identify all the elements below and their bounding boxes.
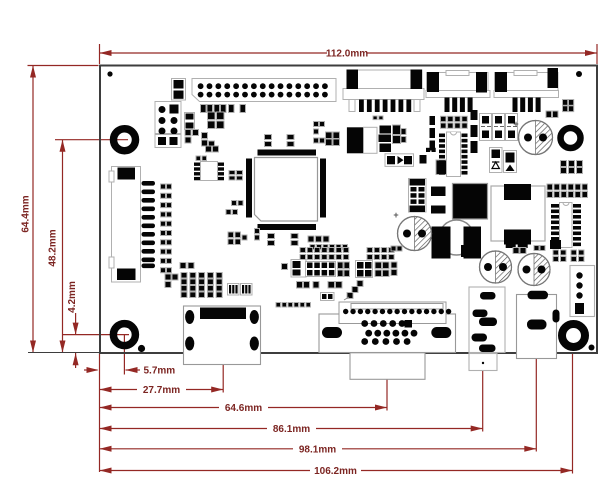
svg-text:64.4mm: 64.4mm xyxy=(21,195,32,232)
pads P4 xyxy=(229,171,243,181)
components R3 R4 R5 xyxy=(185,130,219,153)
pads row P20 xyxy=(276,303,311,308)
capacitor C6 xyxy=(291,234,298,246)
mounting hole top-left xyxy=(114,129,136,151)
pads P22 xyxy=(165,263,194,288)
HDMI connector J8 xyxy=(184,306,261,365)
dimension 4.2mm xyxy=(67,281,79,368)
pads P11 xyxy=(561,161,583,174)
svg-text:48.2mm: 48.2mm xyxy=(48,229,59,266)
pads P2 xyxy=(196,156,207,161)
svg-text:+: + xyxy=(513,119,518,129)
via dot near bottom-right hole xyxy=(589,345,595,351)
pads P7 xyxy=(228,232,247,245)
pads cluster P18 xyxy=(356,261,398,278)
pads column P3 xyxy=(161,184,172,273)
components R9-R11 xyxy=(471,110,478,153)
diode D3 xyxy=(504,151,517,173)
dimension 106.2mm (to 4-pin connector center) xyxy=(100,352,573,477)
pads P14 xyxy=(553,250,584,262)
capacitor C10 (electrolytic) xyxy=(393,210,431,251)
FFC connector J7 xyxy=(109,167,141,283)
capacitor C3 xyxy=(265,135,272,147)
resistors R1 R2 xyxy=(201,105,246,113)
components C1 C2 xyxy=(185,112,225,130)
capacitor C14 (electrolytic) xyxy=(480,251,512,283)
capacitor C7 (tantalum) xyxy=(347,127,377,153)
pads P15 xyxy=(513,246,545,254)
PCB board outline xyxy=(100,66,597,354)
dimension 64.6mm (to VGA center) xyxy=(100,316,388,414)
dimension 5.7mm xyxy=(84,335,175,377)
component U7 xyxy=(282,260,307,278)
pads P16 xyxy=(391,246,402,251)
capacitors C8 C9 xyxy=(431,187,446,214)
svg-text:64.6mm: 64.6mm xyxy=(225,403,262,414)
component R15 xyxy=(321,293,335,301)
svg-text:5.7mm: 5.7mm xyxy=(144,366,176,377)
extension line at bottom hole center xyxy=(63,334,129,336)
IC U6 (SOIC-16) xyxy=(551,203,581,248)
component T1 xyxy=(409,179,427,213)
components Q1 R6 xyxy=(373,116,406,152)
IC U1 (QFP main controller) xyxy=(246,150,326,231)
inductor L1 (shielded) xyxy=(453,184,488,220)
svg-text:+: + xyxy=(393,210,398,220)
components R12-R14 xyxy=(506,240,561,250)
svg-text:98.1mm: 98.1mm xyxy=(299,444,336,455)
resistor array RN1 xyxy=(300,248,349,260)
FFC pin pads xyxy=(142,181,156,268)
extension line at board top edge xyxy=(28,65,99,67)
extension line from board left edge xyxy=(99,353,101,472)
pads P6 xyxy=(326,132,340,146)
pin header J2 (2x15) xyxy=(192,79,336,102)
components Q2 Q3 xyxy=(461,245,481,257)
fiducial dot top-right xyxy=(576,71,582,77)
dimension 27.7mm (to HDMI center) xyxy=(100,318,224,396)
components R16 R17 xyxy=(420,116,436,164)
dimension 86.1mm (to AV jack center) xyxy=(100,366,483,435)
pads P23 xyxy=(255,229,260,241)
svg-text:86.1mm: 86.1mm xyxy=(273,424,310,435)
resistor arrays RN4 RN5 xyxy=(228,284,253,296)
diode D2 (zener) xyxy=(490,148,503,173)
IC U2 (SOIC-8) xyxy=(194,162,224,181)
dimension 112.0mm (top overall width) xyxy=(100,44,598,64)
fiducial dot top-left xyxy=(107,71,112,76)
via dot near bottom-left hole xyxy=(138,345,145,352)
connector J4 (4-pin) xyxy=(426,71,490,113)
capacitor C4 xyxy=(287,135,294,147)
IC U4 (SOIC-16) xyxy=(439,132,468,177)
connector J5 (4-pin) xyxy=(494,68,559,112)
connector J3 (7-pin) xyxy=(343,70,424,113)
pads P8 xyxy=(308,236,348,250)
polarity marks xyxy=(481,126,517,128)
AV jack J11 xyxy=(469,287,505,371)
svg-text:112.0mm: 112.0mm xyxy=(326,49,368,60)
capacitor C5 xyxy=(268,234,275,246)
inductor L2 (toroid) xyxy=(432,220,482,259)
svg-text:4.2mm: 4.2mm xyxy=(67,281,78,313)
capacitor C16 (electrolytic) xyxy=(513,119,552,155)
dimension 98.1mm (to DC jack center) xyxy=(100,330,537,455)
capacitor bank C11-C13 xyxy=(480,114,518,141)
pads P9 xyxy=(441,116,468,128)
VGA connector J9 xyxy=(319,302,456,379)
DC jack J12 xyxy=(517,291,560,359)
connector J13 (4-pin) xyxy=(570,266,595,317)
IC U5 (power module) xyxy=(491,184,545,245)
jumper staircase xyxy=(344,281,363,301)
svg-text:106.2mm: 106.2mm xyxy=(314,466,357,477)
pads P4b xyxy=(226,201,243,215)
connector J1 (2-pad) xyxy=(172,79,186,101)
pads P13 xyxy=(547,184,588,198)
pads P5 xyxy=(314,122,325,144)
mounting hole bottom-right xyxy=(562,324,585,347)
diode D1 xyxy=(385,154,414,167)
pad matrix P21 xyxy=(181,273,222,298)
pads P17 xyxy=(338,262,350,277)
pads cluster P1 xyxy=(563,100,574,112)
pads P19 xyxy=(297,282,343,289)
component U3 xyxy=(436,160,450,175)
extension line at board bottom edge xyxy=(28,352,99,354)
pads P10 xyxy=(546,111,558,118)
dimension 48.2mm xyxy=(48,140,66,353)
svg-text:27.7mm: 27.7mm xyxy=(143,385,180,396)
resistor array RN2 xyxy=(367,248,394,260)
capacitor C15 (electrolytic) xyxy=(518,254,550,286)
mounting hole bottom-left xyxy=(113,324,135,346)
ring pad top-right xyxy=(561,128,581,148)
dimension 64.4mm (left overall height) xyxy=(21,66,37,353)
connector J6 (6-pos) xyxy=(155,102,181,148)
resistor array RN3 xyxy=(306,262,336,277)
extension line at top hole center xyxy=(55,139,128,141)
